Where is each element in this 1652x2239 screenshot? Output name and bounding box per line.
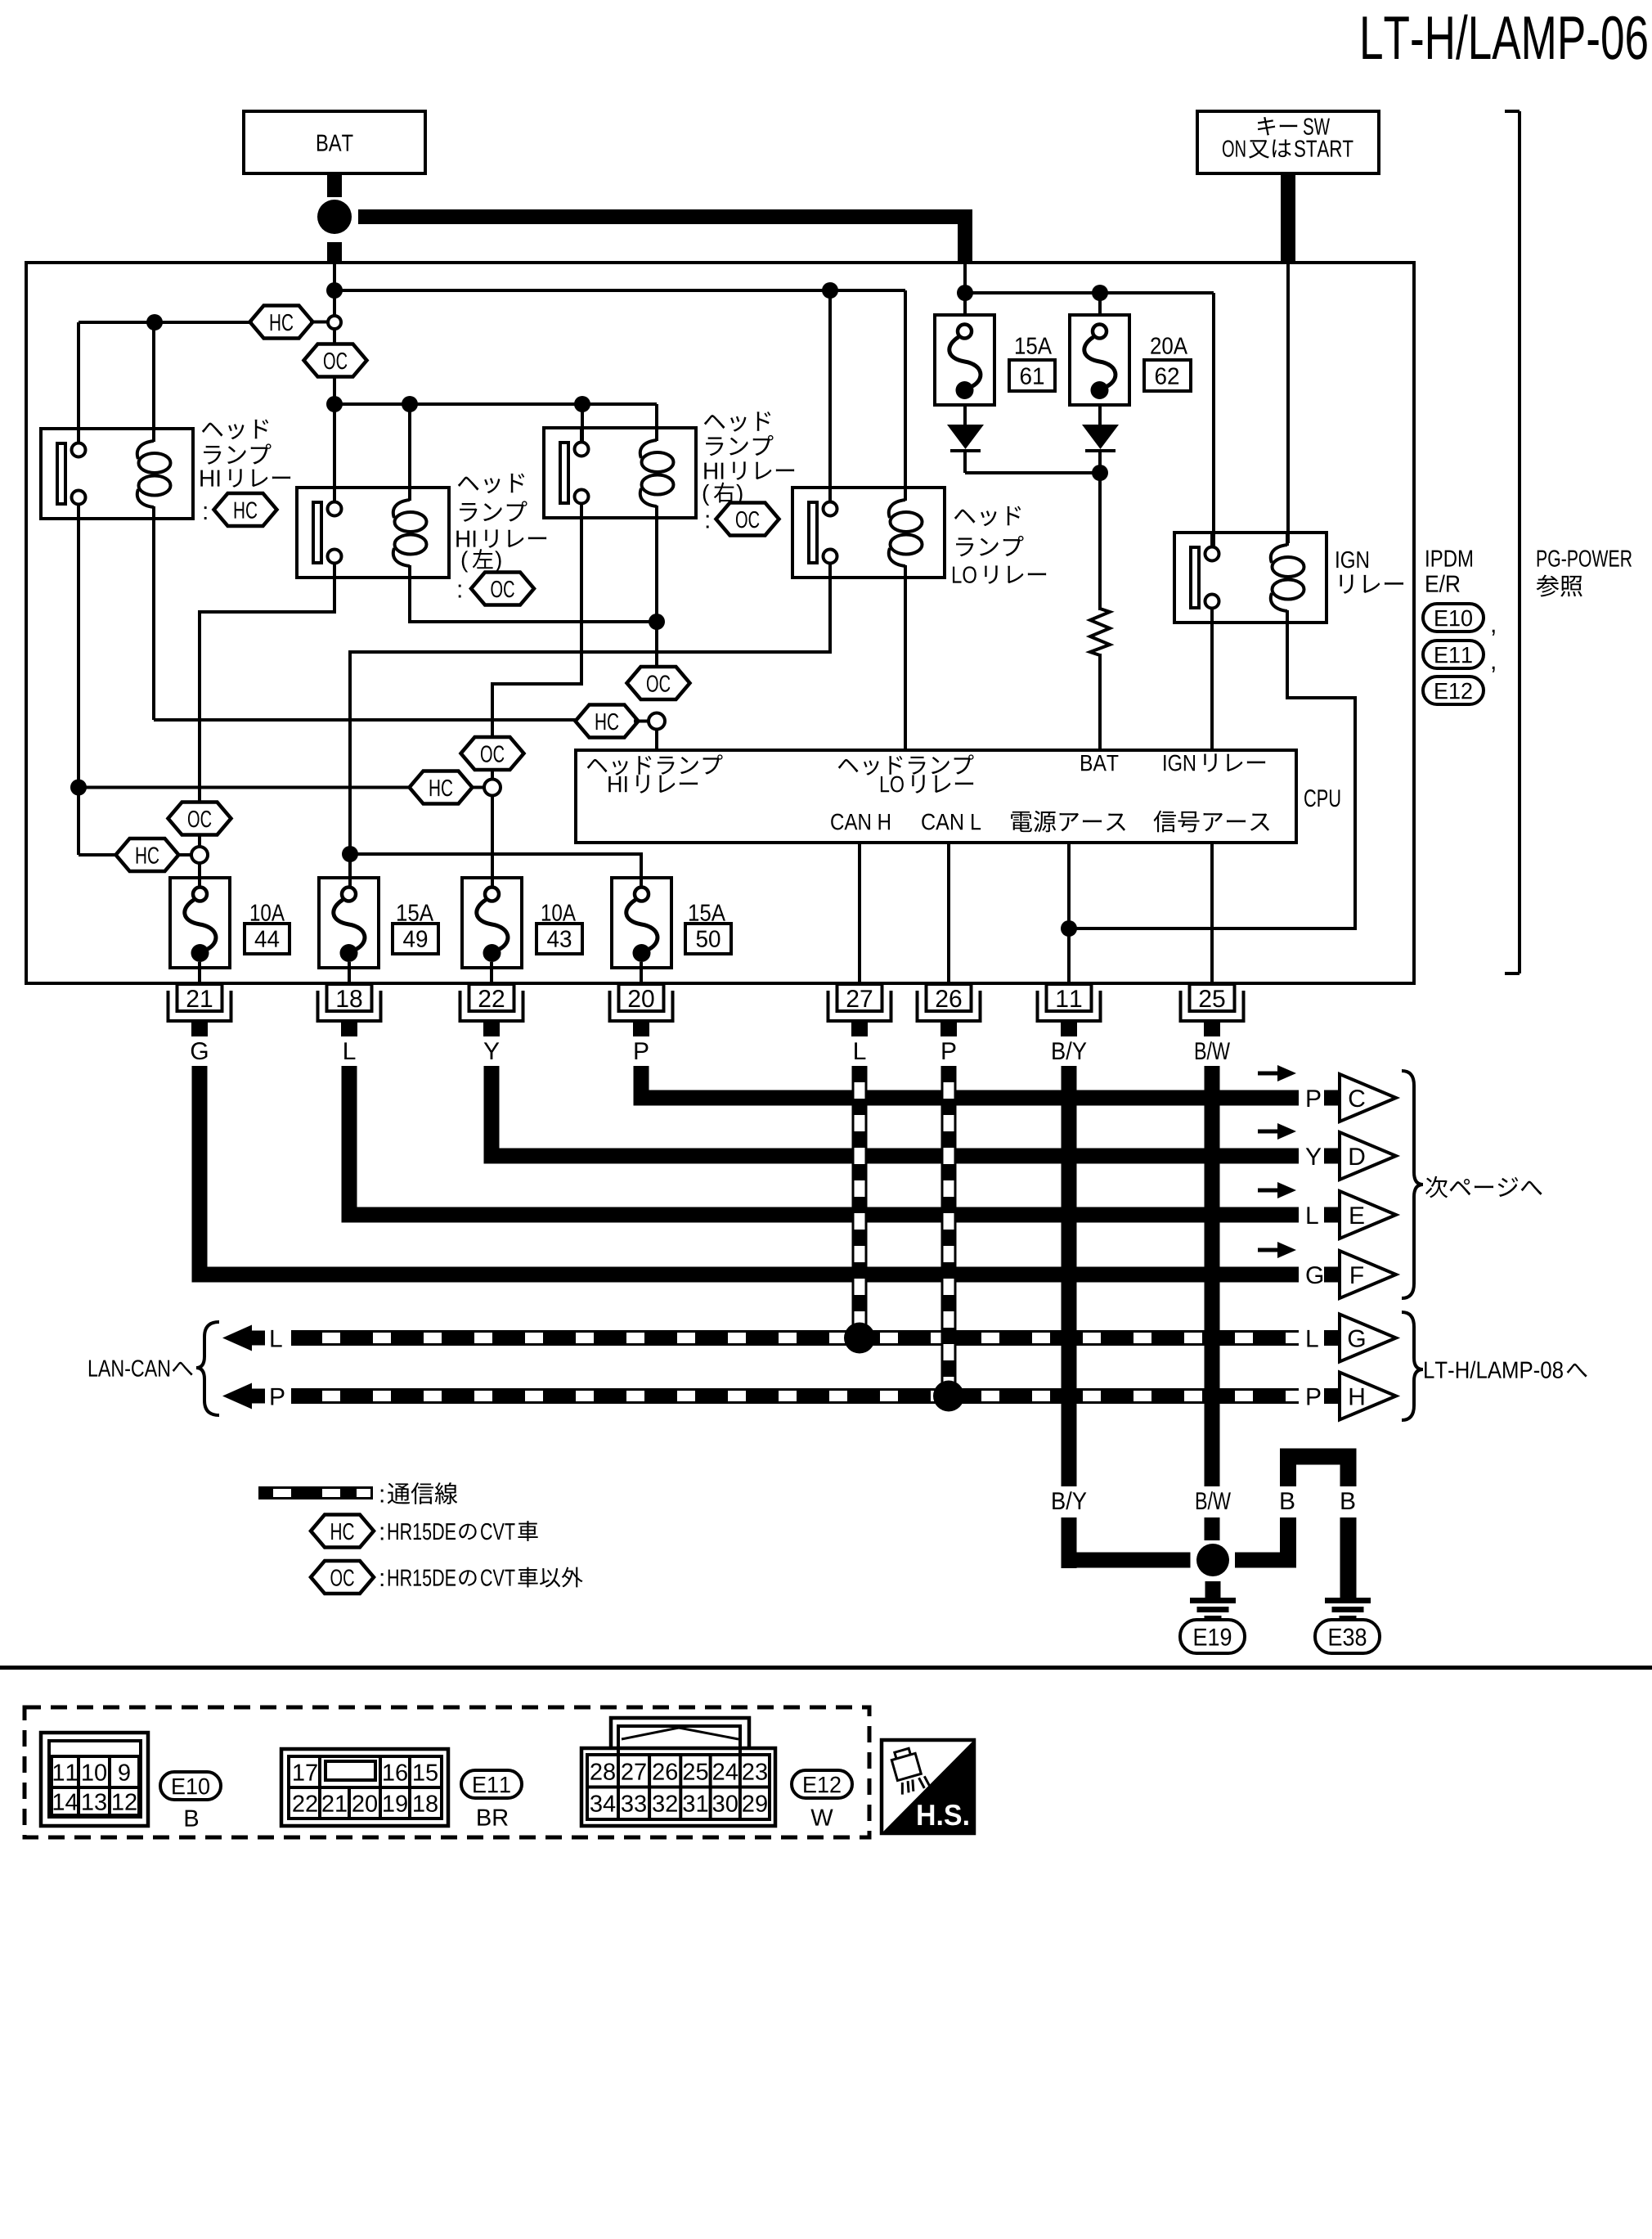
fuse 43 10A xyxy=(462,878,522,968)
relay headlamp HI left (OC) xyxy=(297,488,449,578)
brace LT-H/LAMP-08 xyxy=(1402,1312,1423,1420)
page connector C wire P xyxy=(1258,1065,1396,1122)
wire fuse 61/62 feed line xyxy=(965,263,1214,547)
tag OC hexagon to fuse 43 xyxy=(461,737,524,770)
page connector D wire Y xyxy=(1258,1123,1396,1180)
diode D2 xyxy=(1082,405,1119,473)
label LAN-CAN xyxy=(89,1360,193,1377)
junction dots fuse feed xyxy=(957,285,1108,301)
connector refs E10 E11 E12 xyxy=(1423,604,1495,704)
CPU box xyxy=(576,750,1296,843)
wire CAN L dashed row to LAN-CAN xyxy=(291,1330,1304,1346)
pin 18 wire L xyxy=(318,984,381,1059)
tag HC hexagon to fuse 44 xyxy=(116,839,192,871)
label CPU xyxy=(1304,789,1340,807)
pin 26 wire P xyxy=(918,984,981,1059)
wire B/Y pin11 thick xyxy=(1062,1066,1191,1568)
pin 22 wire Y xyxy=(460,984,523,1059)
wire L pin18 thick xyxy=(342,1066,1300,1223)
wire Y pin22 thick xyxy=(484,1066,1300,1164)
fuse 44 10A xyxy=(170,878,230,968)
connector E11 label xyxy=(461,1770,522,1826)
fuse 50 15A xyxy=(612,878,671,968)
diode D1 xyxy=(947,405,984,473)
wire BAT branch to LO relay feeds xyxy=(334,290,905,501)
tag HC hexagon near BAT xyxy=(250,306,329,339)
wire key-SW to IGN coil xyxy=(1286,263,1290,543)
connector E10 label xyxy=(160,1772,221,1827)
wire OC branch to HI relays L/R xyxy=(334,404,657,499)
fuse 62 20A xyxy=(1070,315,1129,405)
IPDM E/R enclosure box xyxy=(26,263,1414,983)
wire P pin20 thick xyxy=(634,1066,1300,1106)
page connector F wire G xyxy=(1258,1242,1396,1298)
wires fuse outputs to pins xyxy=(200,962,641,984)
legend HC xyxy=(311,1515,538,1548)
wire CAN H pin27 dashed xyxy=(852,1066,868,1330)
wire LO output to fuse 50 xyxy=(350,854,641,887)
legend communication line text xyxy=(381,1482,458,1504)
wire HI right relay pin to fuse 43 xyxy=(492,505,581,887)
label LT-H/LAMP-08 xyxy=(1425,1361,1587,1378)
ground E19 xyxy=(1180,1598,1245,1653)
arrow to LAN-CAN L xyxy=(222,1325,282,1351)
label fuse 44 10A xyxy=(245,904,290,954)
power source BAT box xyxy=(244,111,425,173)
relay IGN xyxy=(1174,533,1327,623)
tag OC hexagon on BAT line xyxy=(304,344,367,377)
arrow to LAN-CAN P xyxy=(222,1383,284,1409)
wire key-SW thick feed xyxy=(1281,173,1295,263)
wire diode outputs join xyxy=(965,465,1108,610)
wire LO relay pin output xyxy=(350,562,830,887)
label PG-POWER xyxy=(1537,550,1632,596)
relay headlamp HI (HC) xyxy=(41,429,193,519)
legend communication line sample xyxy=(258,1486,373,1499)
title LT-H/LAMP-06 xyxy=(1362,15,1646,60)
junction dots on LO feed line xyxy=(326,282,838,299)
wire BAT vertical into box xyxy=(333,263,336,501)
label headlamp HI relay right (OC) xyxy=(703,411,794,535)
separator line xyxy=(0,1666,1652,1670)
connector E12 label xyxy=(792,1770,852,1826)
legend OC xyxy=(311,1561,583,1594)
wire IGN coil ground to CPU power-earth xyxy=(1069,623,1355,928)
wire HI relay coils to CPU xyxy=(154,518,657,720)
junction dot CAN H xyxy=(844,1323,875,1354)
label fuse 43 10A xyxy=(536,904,582,954)
wire CAN L pin26 dashed xyxy=(941,1066,957,1393)
wire HI left relay pin to fuse 44 xyxy=(200,562,334,887)
junction dot HI relay coil feed xyxy=(146,314,163,330)
junction dots on OC branch xyxy=(326,396,590,412)
label headlamp LO relay xyxy=(953,506,1046,584)
pin 27 wire L xyxy=(828,984,891,1059)
wire B/W pin25 thick xyxy=(1205,1066,1220,1540)
brace next page xyxy=(1402,1071,1423,1298)
page connector E wire L xyxy=(1258,1182,1396,1239)
node open circle HC/OC select xyxy=(328,316,341,329)
pin 20 wire P xyxy=(610,984,673,1059)
label B left xyxy=(1281,1492,1294,1509)
wire IGN relay pin to CPU xyxy=(1210,609,1214,750)
label fuse 49 15A xyxy=(393,905,438,954)
wire thick corner down to IPDM box xyxy=(958,209,972,264)
connector E10 face xyxy=(41,1733,148,1826)
wire HI relay HC pin output xyxy=(79,519,411,855)
relay headlamp HI right (OC) xyxy=(544,428,696,518)
connector detail dashed box xyxy=(25,1707,869,1837)
label next page xyxy=(1425,1176,1542,1198)
tag OC hexagon CPU HI xyxy=(627,667,690,699)
label fuse 61 15A xyxy=(1009,338,1055,391)
label CPU inputs xyxy=(587,753,1265,793)
pin 11 wire B/Y xyxy=(1038,984,1101,1059)
junction BAT node xyxy=(317,200,352,234)
label IPDM E/R xyxy=(1426,551,1472,592)
connector E12 face xyxy=(581,1718,775,1826)
junction dot HI HC output split xyxy=(70,780,87,796)
wire G pin21 thick xyxy=(192,1066,1300,1283)
tag HC hexagon to fuse 43 xyxy=(410,771,485,804)
label CPU bottom pins xyxy=(831,811,1269,833)
junction dot ground E19 xyxy=(1196,1544,1229,1598)
fuse 61 15A xyxy=(935,315,994,405)
junction dot CAN L xyxy=(933,1381,964,1412)
label fuse 50 15A xyxy=(685,905,731,954)
pin 21 wire G xyxy=(168,984,231,1059)
label fuse 62 20A xyxy=(1144,337,1191,391)
relay headlamp LO xyxy=(792,488,945,578)
page connector H wire P xyxy=(1307,1373,1396,1420)
node open circle fuse 44 select xyxy=(191,847,208,863)
tag HC hexagon CPU HI xyxy=(576,705,649,738)
brace LAN-CAN xyxy=(196,1322,219,1415)
tag OC hexagon to fuse 44 xyxy=(168,803,231,835)
label IGN relay xyxy=(1336,551,1403,594)
PG-POWER reference bracket xyxy=(1505,111,1520,973)
node open circle fuse 43 select xyxy=(484,780,501,796)
power source key-SW box xyxy=(1197,111,1379,173)
label headlamp HI relay left (OC) xyxy=(456,474,546,605)
wire LO relay coil to CPU xyxy=(904,578,907,750)
H.S. view mark xyxy=(882,1740,974,1833)
fuse 49 15A xyxy=(319,878,379,968)
pin 25 wire B/W xyxy=(1181,984,1244,1059)
resistor to CPU BAT xyxy=(1090,609,1110,750)
label headlamp HI relay (HC) xyxy=(200,420,290,526)
wire CAN P dashed row to LAN-CAN xyxy=(291,1388,1304,1404)
junction dot power-earth xyxy=(1061,920,1077,937)
connector E11 face xyxy=(281,1749,448,1826)
wire BAT thick feed xyxy=(327,173,972,264)
label B right xyxy=(1341,1492,1354,1509)
page connector G wire L xyxy=(1307,1315,1396,1362)
wires CPU outputs to pins xyxy=(860,843,1212,984)
junction dot LO output split xyxy=(342,846,358,862)
junction dot HI coil control xyxy=(649,614,665,630)
wire B jumper xyxy=(1235,1449,1357,1598)
label B/W lower xyxy=(1196,1491,1231,1509)
label B/Y lower xyxy=(1053,1491,1086,1509)
ground E38 xyxy=(1315,1598,1380,1653)
wire HC branch to HI relay xyxy=(79,322,253,443)
node open circle CPU HI select xyxy=(649,713,665,730)
